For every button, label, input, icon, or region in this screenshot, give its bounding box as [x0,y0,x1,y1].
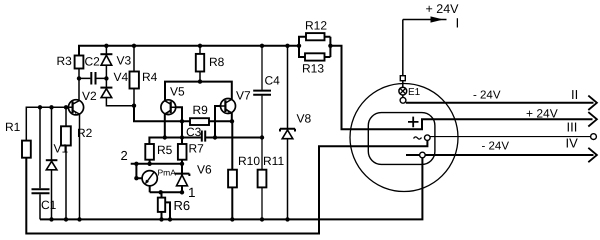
svg-text:R13: R13 [302,62,324,76]
wire node 2 row [131,163,182,165]
diode V3 [100,54,131,68]
junction R6 top / meter row [159,190,163,194]
junction R8 / +24V rail [198,44,202,48]
capacitor C3 [186,125,205,142]
resistor R3 [75,56,84,69]
wire output line II [406,102,594,104]
junction V8 column / +24V rail [285,44,289,48]
diode V4 [100,70,128,98]
junction C4 / R11 node [260,135,264,139]
svg-text:1: 1 [188,185,196,200]
transistor V2 [66,89,97,115]
junction meter left corner [134,176,138,180]
svg-text:V5: V5 [170,85,185,99]
svg-text:R3: R3 [57,54,73,68]
svg-text:R9: R9 [193,103,209,117]
capacitor C1 [32,189,57,212]
transistor V7 [220,89,251,114]
svg-text:C3: C3 [186,125,202,139]
svg-text:C1: C1 [41,198,57,212]
~ squiggle [414,137,422,139]
junction R10 / bottom bus [230,217,234,221]
wire V1 column [51,107,53,219]
svg-text:R11: R11 [263,154,284,168]
wire node 2 to meter [136,164,142,178]
svg-text:C2: C2 [85,55,101,69]
wire R12R13 to +24V output line III [330,46,592,129]
wire output line IV [406,154,594,156]
open circle end of line III [591,134,597,140]
svg-text:R2: R2 [77,126,93,140]
wire base bus left (to V2 base) [26,107,72,140]
svg-text:V8: V8 [297,112,312,126]
diode V6 [175,163,212,186]
svg-text:2: 2 [121,148,128,163]
arrow chevron +24V [588,112,597,126]
svg-text:- 24V: - 24V [482,140,510,152]
capacitor C4 [253,74,280,95]
diode V1 [46,142,69,170]
transistor V5 [161,85,185,115]
resistor R13 [305,53,325,60]
junction R6 wiper / bottom bus [168,217,172,221]
wire output thin line III circle end [427,136,590,138]
junction R4 column / +24V rail [132,44,136,48]
svg-text:I: I [456,16,460,31]
svg-text:R1: R1 [5,120,21,134]
junction V6 / node 1 row [180,190,184,194]
junction R12R13 right node [328,44,332,48]
wire emitter row R5 C3 [149,138,262,145]
wire R4 to R9 row [134,106,232,122]
junction R7 / R5-C3 row [180,135,184,139]
wire +24V I arrow line [403,19,447,21]
wire V2 collector [78,78,80,100]
svg-text:C4: C4 [265,74,281,88]
lamp E1 [399,87,421,98]
resistor R1 [22,141,31,158]
resistor R12 [306,33,325,40]
wire V8 column [287,46,289,220]
arrow chevron IV [588,148,597,162]
svg-text:R7: R7 [189,142,205,156]
terminal pin above E1 [400,76,405,81]
svg-text:V3: V3 [117,54,132,68]
resistor R9 [190,118,209,125]
svg-text:R4: R4 [142,70,158,84]
connector pin ~ [425,135,431,141]
junction R12R13 left node / rail [297,44,301,48]
junction V5 emitter / R5-C3 row [163,135,167,139]
meter PmA [142,168,176,186]
svg-text:E1: E1 [408,87,421,98]
resistor R10 [228,170,237,188]
junction R2 / V2 base wire [64,105,68,109]
wire R5 bottom stub [149,160,151,164]
junction V3 column / +24V rail [104,44,108,48]
svg-text:III: III [567,120,578,135]
connector body barrel [368,113,435,165]
svg-text:V4: V4 [114,70,129,84]
svg-text:R5: R5 [157,143,173,157]
junction R3 / C2 / V2 collector [77,76,81,80]
wire R12 R13 bracket left [299,37,306,57]
junction V7 emitter / R9 row [230,119,234,123]
junction V1 / bottom bus [49,217,53,221]
resistor R11 [258,170,267,188]
svg-text:- 24V: - 24V [473,90,501,102]
svg-text:V1: V1 [54,142,69,156]
svg-text:R10: R10 [238,154,260,168]
wire R6 wiper tap [165,202,170,219]
wire C1 column [39,107,41,219]
junction C2 / V3 / V4 node [104,76,108,80]
arrow chevron II [588,96,597,110]
junction node 2 / meter branch [134,162,138,166]
junction R11 / bottom bus [260,217,264,221]
junction V8 / bottom bus [285,217,289,221]
svg-text:R6: R6 [174,198,191,213]
connector envelope outer circle [350,84,458,192]
svg-text:PmA: PmA [158,168,177,178]
wire outer loop (R1 branch, bottom, right riser to connector) [26,141,427,234]
wire R6 column [161,192,163,219]
svg-text:R12: R12 [305,19,327,33]
wire V7 emitter to R10 [231,113,234,219]
wire V2 emitter [79,114,81,219]
junction R5 / node 2 row [147,162,151,166]
wire C4 column [261,46,263,138]
resistor R2 [61,126,71,145]
wire R4 column [133,46,135,106]
wire R11 column [261,138,263,220]
terminal pin below E1 (line II tap) [400,97,406,103]
junction C1 / V2 base wire [38,105,42,109]
svg-text:V7: V7 [236,89,251,103]
junction R7 / V6 / node 2 row [180,162,184,166]
wire R12 R13 bracket right [325,37,331,57]
junction R6 / bottom bus [159,217,163,221]
svg-text:II: II [571,87,578,102]
junction V7 base / C3 row [213,135,217,139]
junction V2 emitter / bottom bus [77,217,81,221]
diode V8 [280,112,312,139]
connector pin line IV [420,152,426,158]
junction V1 / V2 base wire [49,105,53,109]
plus sign in connector [408,117,419,128]
wire R2 column [65,107,67,219]
svg-text:R8: R8 [209,55,225,69]
svg-text:+ 24V: + 24V [426,2,460,16]
junction C4 column / +24V rail [260,44,264,48]
wire phase splitter row V5-V7 [165,82,232,101]
arrow I head [431,16,444,22]
resistor R8 [196,54,204,72]
wire V5 base to R7 column [171,107,183,192]
svg-text:V2: V2 [82,89,97,103]
resistor R5 [145,144,154,160]
junction V4 / R4 column [132,104,136,108]
resistor R7 [178,144,187,160]
wire top rail +24V [79,46,299,56]
wire V5 emitter [164,114,166,138]
junction R2 / bottom bus [64,217,68,221]
svg-text:IV: IV [566,136,579,151]
wire E1 column [402,20,404,104]
resistor R4 [130,72,139,89]
wire R8 stub [199,46,201,82]
resistor R6 [158,198,165,212]
svg-text:V6: V6 [197,163,212,177]
wire bottom bus 0V [40,158,422,220]
wire V3 V4 column [106,46,134,106]
svg-text:+ 24V: + 24V [526,106,558,120]
wire meter bottom row node 1 [150,186,182,193]
junction R8 / phase splitter row [198,79,202,83]
capacitor C2 [85,55,101,85]
wire C2 row [79,69,106,79]
junction V5 base / R9 row [180,119,184,123]
wire V7 base to C3 row [215,106,225,138]
